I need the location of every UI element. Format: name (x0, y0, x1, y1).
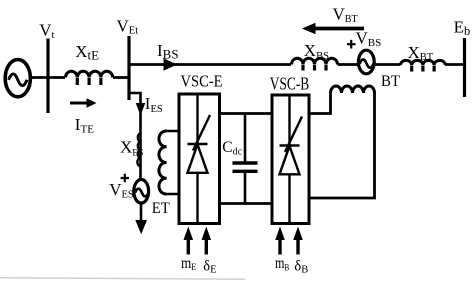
arrow IES (down, on branch) (136, 103, 146, 116)
svg-text:VSC-E: VSC-E (181, 71, 223, 90)
wire main transmission line (BS side) (129, 63, 291, 66)
svg-text:IES: IES (145, 94, 163, 115)
VSC-B box (272, 95, 309, 224)
svg-text:ITE: ITE (75, 115, 94, 135)
svg-text:ET: ET (152, 200, 170, 217)
wire VBS to XBT (376, 63, 401, 66)
faint scan artifact bottom left (0, 278, 245, 279)
svg-text:IBS: IBS (157, 41, 179, 61)
wire coil XtE to bus VEt (113, 76, 129, 79)
svg-text:mE: mE (181, 255, 196, 273)
svg-text:VBT: VBT (333, 5, 358, 25)
source VBS (series injected voltage) (358, 50, 374, 74)
DC rail top (220, 112, 273, 115)
transformer BT winding loop (309, 86, 375, 198)
plus sign of VES (121, 174, 129, 182)
svg-text:VES: VES (109, 180, 134, 200)
inductor XBT (401, 60, 446, 65)
svg-text:Vt: Vt (39, 21, 54, 41)
capacitor Cdc (233, 114, 258, 204)
wire XES to VES source (139, 166, 142, 180)
svg-text:Eb: Eb (454, 17, 471, 37)
svg-text:Cdc: Cdc (222, 139, 242, 157)
arrow IBS on line (164, 58, 178, 70)
svg-text:δB: δB (294, 259, 308, 276)
wire source to Vt bus to coil (31, 76, 66, 79)
svg-text:VBS: VBS (356, 28, 382, 48)
inductor XES (small, on branch) (137, 133, 140, 166)
svg-text:VEt: VEt (117, 16, 139, 36)
svg-text:VSC-B: VSC-B (270, 73, 310, 93)
svg-text:XBT: XBT (408, 43, 434, 63)
arrow below VES (down) (135, 204, 147, 235)
source VES (shunt injected voltage) (134, 180, 149, 204)
bus Vt (46, 39, 49, 114)
VSC-E box (179, 94, 220, 224)
wire XBS to VBS source (338, 63, 358, 66)
thyristor valve E (188, 95, 211, 222)
inductor XtE (66, 71, 113, 77)
arrow mE input (184, 227, 194, 255)
wire shunt branch from VEt bus (129, 93, 141, 134)
transformer ET winding (159, 131, 179, 194)
inductor XBS (292, 58, 338, 64)
DC rail bottom (220, 202, 273, 205)
arrow VBT (pointing left) (302, 23, 364, 34)
plus sign of VBS (347, 40, 356, 49)
svg-text:XBS: XBS (304, 41, 329, 62)
svg-text:BT: BT (381, 73, 400, 90)
arrow mB input (275, 227, 285, 255)
arrow deltaE input (202, 227, 212, 255)
svg-text:mB: mB (275, 255, 289, 272)
bus VEt (127, 36, 130, 100)
svg-text:δE: δE (203, 259, 216, 276)
thyristor valve B (280, 96, 303, 223)
svg-text:XtE: XtE (75, 42, 99, 63)
arrow deltaB input (293, 227, 303, 255)
wire XBT to Eb bus (445, 63, 465, 66)
arrow ITE (70, 98, 97, 108)
bus Eb (463, 38, 466, 97)
AC source left (system source at Vt) (5, 60, 30, 97)
